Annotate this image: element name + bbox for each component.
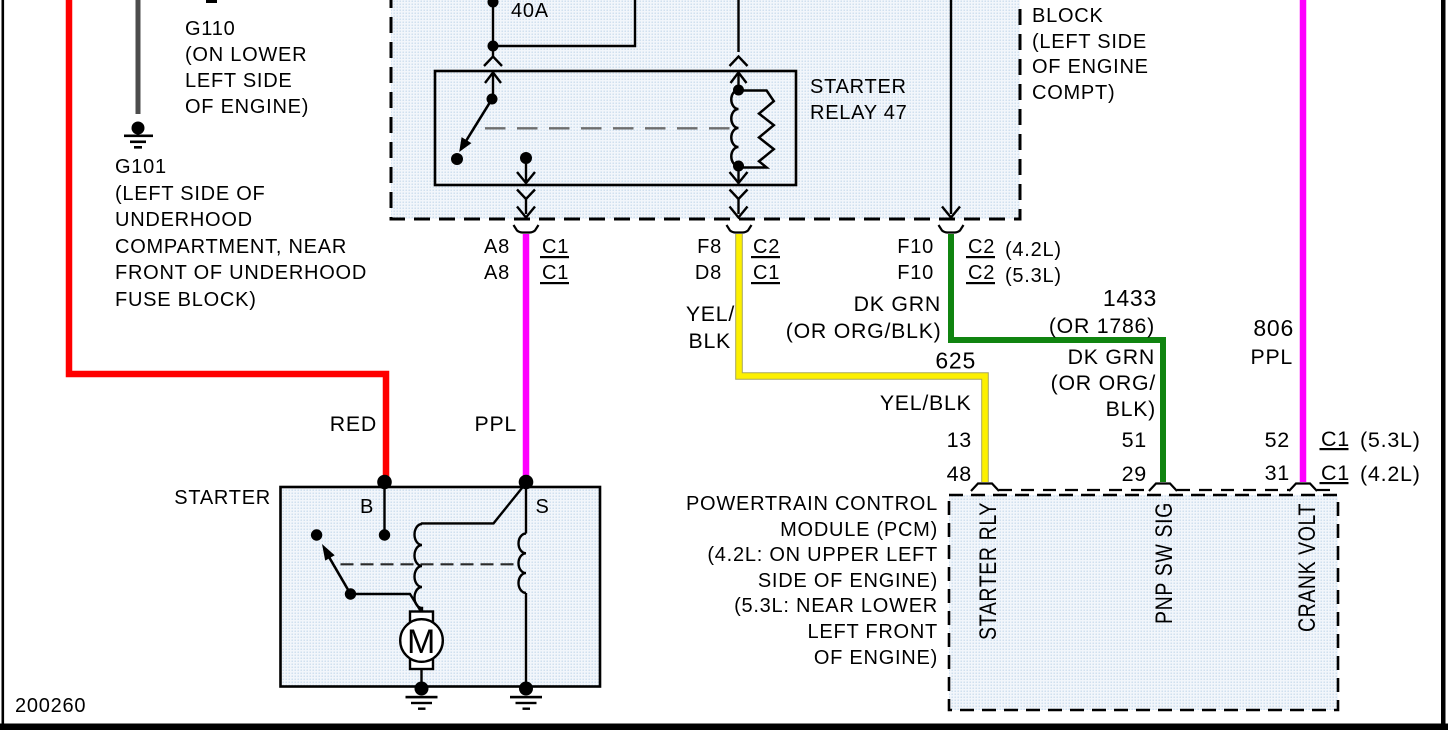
labels YEL/ BLK	[686, 302, 735, 353]
wire: ground wire to G101 (gray)	[136, 0, 141, 114]
svg-text:YEL/BLK: YEL/BLK	[880, 391, 972, 415]
starter solenoid dashed line	[341, 563, 515, 565]
PCM connector pin bump 29	[1149, 484, 1177, 492]
page borders (decorative)	[2, 0, 5, 730]
svg-text:(5.3L): (5.3L)	[1005, 265, 1062, 287]
label G101 note	[115, 156, 367, 311]
svg-text:OF ENGINE: OF ENGINE	[1032, 56, 1149, 78]
svg-text:POWERTRAIN CONTROL: POWERTRAIN CONTROL	[686, 493, 938, 515]
svg-text:BLK: BLK	[688, 329, 731, 353]
ground at motor	[406, 682, 438, 710]
labels F8 C2 / D8 C1	[695, 236, 780, 284]
svg-text:(4.2L): (4.2L)	[1005, 239, 1062, 261]
svg-text:CRANK VOLT: CRANK VOLT	[1294, 503, 1321, 632]
svg-text:51: 51	[1122, 428, 1147, 452]
svg-text:UNDERHOOD: UNDERHOOD	[115, 209, 253, 231]
relay coil output arrows	[730, 166, 748, 218]
starter motor M	[400, 612, 443, 689]
PCM connector pin bump 31	[1289, 484, 1317, 492]
svg-text:OF ENGINE): OF ENGINE)	[814, 647, 938, 669]
labels A8 C1 rows	[484, 236, 569, 284]
svg-text:(ON LOWER: (ON LOWER	[185, 44, 307, 66]
svg-text:STARTER: STARTER	[174, 487, 271, 509]
svg-text:31: 31	[1265, 461, 1290, 485]
svg-text:PPL: PPL	[1250, 345, 1293, 369]
PCM box	[949, 495, 1338, 710]
labels F10 C2 (4.2L) / F10 C2 (5.3L)	[897, 236, 1061, 287]
ground at hold-in winding	[510, 682, 542, 710]
starter S terminal	[519, 475, 534, 490]
svg-text:DK GRN: DK GRN	[1068, 345, 1155, 369]
connector chevron above relay (switch input)	[484, 57, 502, 67]
hold-in winding	[518, 483, 526, 688]
svg-text:(4.2L: ON UPPER LEFT: (4.2L: ON UPPER LEFT	[707, 544, 938, 566]
labels 625 YEL/BLK	[880, 348, 976, 416]
svg-text:C2: C2	[753, 236, 780, 258]
wire PPL (starter S feed)	[523, 234, 530, 477]
starter relay 47 box	[435, 71, 796, 185]
svg-text:48: 48	[947, 462, 972, 486]
svg-text:S: S	[535, 496, 549, 518]
svg-text:OF ENGINE): OF ENGINE)	[185, 96, 309, 118]
label BLOCK note	[1032, 5, 1149, 104]
svg-text:(5.3L: NEAR LOWER: (5.3L: NEAR LOWER	[734, 595, 938, 617]
svg-text:PNP SW SIG: PNP SW SIG	[1151, 502, 1178, 624]
svg-text:SIDE OF ENGINE): SIDE OF ENGINE)	[758, 570, 938, 592]
svg-text:RED: RED	[330, 412, 377, 436]
labels pin row 48 29 31 C1 (4.2L)	[947, 461, 1421, 486]
svg-text:MODULE (PCM): MODULE (PCM)	[780, 519, 938, 541]
connector C1 cup at A8	[514, 225, 539, 233]
svg-text:F8: F8	[697, 236, 722, 258]
svg-text:G110: G110	[185, 18, 235, 40]
svg-text:(OR ORG/BLK): (OR ORG/BLK)	[786, 319, 942, 343]
svg-text:BLK): BLK)	[1106, 397, 1156, 421]
svg-text:C1: C1	[1321, 461, 1350, 485]
relay coil input arrow	[731, 73, 747, 91]
wire: relay coil feed from top	[737, 0, 739, 52]
PCM pins dashed line seg 1	[999, 489, 1149, 491]
svg-text:40A: 40A	[511, 0, 549, 22]
svg-text:F10: F10	[897, 236, 934, 258]
svg-text:52: 52	[1265, 428, 1290, 452]
labels 1433 (OR 1786)	[1049, 285, 1157, 338]
svg-text:FRONT OF UNDERHOOD: FRONT OF UNDERHOOD	[115, 262, 367, 284]
relay coil	[731, 85, 744, 172]
svg-text:(LEFT SIDE OF: (LEFT SIDE OF	[115, 183, 266, 205]
wire YEL/BLK	[739, 234, 985, 482]
svg-text:FUSE BLOCK): FUSE BLOCK)	[115, 289, 257, 311]
svg-text:COMPT): COMPT)	[1032, 82, 1115, 104]
pull-in winding	[415, 483, 526, 612]
svg-text:DK GRN: DK GRN	[854, 292, 941, 316]
labels 806 PPL	[1250, 315, 1294, 369]
relay switch output wire with arrows	[517, 152, 535, 218]
connector chevron above relay (coil input)	[730, 57, 748, 67]
labels pin row 13 51 52 C1 (5.3L)	[947, 427, 1421, 452]
svg-text:A8: A8	[484, 236, 510, 258]
svg-text:C2: C2	[968, 262, 995, 284]
connector C2 cup at F10	[939, 225, 964, 233]
svg-text:C2: C2	[968, 236, 995, 258]
svg-text:625: 625	[935, 348, 976, 374]
svg-text:(OR ORG/: (OR ORG/	[1051, 371, 1156, 395]
PCM pins dashed line seg 2	[1177, 489, 1289, 491]
svg-text:LEFT SIDE: LEFT SIDE	[185, 70, 293, 92]
svg-text:RELAY 47: RELAY 47	[810, 102, 908, 124]
svg-text:C1: C1	[753, 262, 780, 284]
svg-text:29: 29	[1122, 462, 1147, 486]
starter box	[281, 487, 601, 687]
svg-text:M: M	[407, 623, 436, 661]
wire F10 feed inside fuse block	[942, 0, 960, 218]
svg-text:PPL: PPL	[474, 412, 517, 436]
label G110 note	[185, 18, 309, 118]
svg-text:LEFT FRONT: LEFT FRONT	[808, 621, 938, 643]
svg-text:(LEFT SIDE: (LEFT SIDE	[1032, 31, 1147, 53]
svg-text:B: B	[360, 496, 374, 518]
minus sign (battery negative, cut off at top)	[206, 0, 217, 3]
svg-text:C1: C1	[1321, 427, 1350, 451]
connector C2 cup at F8	[727, 225, 752, 233]
wire DK GRN	[951, 234, 1163, 482]
underhood fuse block (dashed box, dotted blue fill)	[391, 0, 1020, 219]
svg-text:BLOCK: BLOCK	[1032, 5, 1104, 27]
svg-text:F10: F10	[897, 262, 934, 284]
svg-text:STARTER: STARTER	[810, 76, 907, 98]
fuse 40A wires	[488, 0, 636, 56]
svg-text:YEL/: YEL/	[686, 302, 735, 326]
svg-text:13: 13	[947, 428, 972, 452]
ground G101	[124, 122, 153, 149]
starter B terminal	[377, 475, 392, 541]
svg-text:A8: A8	[484, 262, 510, 284]
svg-text:200260: 200260	[15, 695, 86, 717]
label STARTER RELAY 47	[810, 76, 908, 124]
svg-text:C1: C1	[542, 236, 569, 258]
svg-text:1433: 1433	[1103, 285, 1157, 311]
svg-text:C1: C1	[542, 262, 569, 284]
svg-text:D8: D8	[695, 262, 722, 284]
svg-text:(4.2L): (4.2L)	[1360, 462, 1421, 486]
svg-text:(5.3L): (5.3L)	[1360, 428, 1421, 452]
relay actuation dashed line	[485, 127, 734, 129]
label POWERTRAIN CONTROL MODULE note	[686, 493, 938, 669]
PCM pins dashed line seg 3	[1317, 489, 1334, 491]
svg-text:COMPARTMENT, NEAR: COMPARTMENT, NEAR	[115, 236, 347, 258]
labels DK GRN (OR ORG/ BLK) right	[1051, 345, 1156, 421]
starter switch	[311, 529, 421, 611]
svg-text:G101: G101	[115, 156, 167, 178]
relay switch input arrow	[485, 73, 501, 100]
PCM connector pin bump 48	[971, 484, 999, 492]
svg-text:(OR 1786): (OR 1786)	[1049, 314, 1155, 338]
relay switch	[451, 94, 498, 166]
relay coil resistor	[739, 91, 774, 168]
wire 806 PPL (crank voltage)	[1300, 0, 1307, 482]
svg-text:STARTER RLY: STARTER RLY	[975, 502, 1002, 640]
wire: battery positive RED	[69, 0, 386, 478]
svg-text:806: 806	[1253, 315, 1294, 341]
labels DK GRN (OR ORG/BLK)	[786, 292, 942, 343]
